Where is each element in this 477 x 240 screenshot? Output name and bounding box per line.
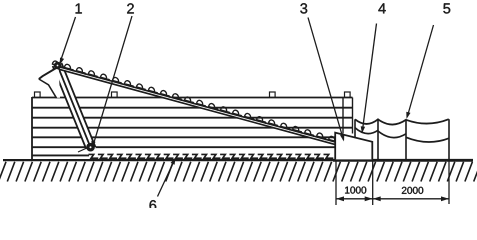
dimension text 1000 (345, 187, 349, 194)
sand pile top contour (355, 119, 449, 124)
bottom scraper flights (89, 154, 334, 158)
scraper boom edge and chain lines (53, 63, 96, 148)
conveyor incline trough (white occluder) (56, 66, 336, 145)
label 5 leader (408, 25, 434, 116)
ground line right heavy segment (333, 159, 473, 162)
label 3 leader (308, 18, 344, 141)
conveyor flights on incline (51, 60, 339, 143)
scraper boom (white occluder) (52, 64, 96, 148)
ground hatching (0, 162, 477, 182)
dimension line (336, 198, 449, 200)
dimension extension line middle (372, 162, 374, 206)
label 3 (300, 3, 307, 13)
label 2 leader (92, 16, 132, 149)
tank right end column (343, 98, 353, 134)
label 2 (127, 3, 134, 13)
ground line (3, 159, 473, 161)
conveyor incline rails (56, 66, 336, 145)
label 1 leader (60, 17, 76, 64)
sand pile division verticals (378, 119, 406, 159)
dimension arrowheads (336, 196, 344, 201)
sand pile left edge (354, 119, 356, 138)
bottom sprocket (86, 143, 95, 152)
dimension extension line left (335, 162, 337, 206)
tank plank lines (32, 108, 353, 156)
sand pile lower contour (355, 128, 449, 142)
dimension text 2000 (402, 187, 407, 194)
dimension extension line right (448, 162, 450, 205)
label 5 (443, 3, 450, 13)
discharge chute (39, 68, 60, 98)
tank rim bolt tabs (35, 92, 41, 97)
label 1 (76, 4, 82, 14)
label 6 (150, 200, 157, 210)
tank top rim (32, 97, 353, 99)
sand pile right edge (448, 119, 450, 159)
label 4 (378, 3, 385, 13)
bottom sprocket chain tail (78, 148, 88, 153)
label 4 leader (363, 24, 377, 131)
discharge wedge box (335, 133, 372, 160)
label 6 leader (158, 159, 176, 197)
tank left wall (31, 97, 33, 160)
top sprocket (54, 62, 61, 69)
